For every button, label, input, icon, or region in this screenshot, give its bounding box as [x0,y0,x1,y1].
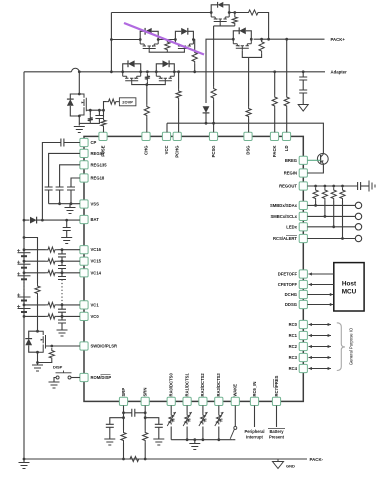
pin RC4 (right edge) [299,364,307,372]
wire VC15 resistor to pin [58,260,80,262]
svg-text:WAKE: WAKE [233,384,238,397]
junction C2 on gate wire [98,109,101,112]
wire VSS ground stub [69,204,71,208]
wire REGOUT line [307,185,357,187]
wire Q4 diode right lead [188,31,194,39]
pin PCSG (top edge) [209,132,217,140]
fuse symbol (hump) in Adapter rail [71,68,79,72]
wire SRN branch to C15 [145,418,159,425]
junction pull-up R11 top on REGOUT [324,185,327,188]
transistor Q9 (PLSR switch) [38,331,48,352]
wire R15 to 2OVP box [118,101,119,103]
pin RCS/ALERT (right edge) [299,234,307,242]
wire Q9 diode top lead [29,331,38,338]
dotted continuation of filter column [61,280,63,304]
wire R2 bottom to DSG gate wire [249,54,262,58]
wire VCC pin riser [166,123,168,132]
body diode of Q1 [218,2,224,8]
pin LD (top edge) [282,132,290,140]
signal arrow RC0 (bidirectional GPIO) [309,323,332,326]
capacitor C1 REGOUT decoupling [358,182,361,190]
wire R21 to PACK- rail [144,443,146,459]
svg-text:MCU: MCU [342,289,357,296]
wire DISP button to ground [54,378,56,382]
svg-text:REGIO: REGIO [91,151,105,156]
signal arrow CFETOFF from MCU [309,283,334,286]
wire C12 to ground [61,323,63,330]
junction BAT takeoff on rail [23,219,26,222]
wire pull-up R11 to its net [324,201,326,216]
junction C10 top [61,271,64,274]
wire Q8 diode bottom lead [70,106,79,116]
wire DISP button to ROM/DISP pin [71,377,80,379]
pin PACK (top edge) [270,132,278,140]
wire Q8 diode top lead [70,94,79,99]
junction VC14 tap on rail [23,271,26,274]
Host MCU box [334,263,364,311]
junction Q1 terminal on top rail [210,11,213,14]
wire Q5-Q6 rail link [120,71,176,73]
wire top rail FET Q1 to resistor [229,12,246,14]
wire D2 to BAT pin [37,219,80,221]
wire VC16 resistor to pin [58,249,80,251]
wire C8 top stub [61,250,63,254]
junction Q9 drain node [36,330,39,333]
signal arrow RC4 (bidirectional GPIO) [309,367,332,370]
junction C11 top [61,304,64,307]
junction C9 top [61,260,64,263]
junction pull-up R12 on net [332,225,335,228]
wire Q3-Q4 common source link [158,39,175,41]
ground at C7 [61,238,72,244]
wire C9 bottom stub [61,269,63,273]
pin RC1 (right edge) [299,331,307,339]
wire R6 bottom to bus [146,82,148,85]
capacitor C10 cell filter [58,277,66,280]
pin VC0 (left edge) [80,312,88,320]
junction C13 right [144,411,147,414]
svg-text:Host: Host [342,281,357,288]
wire PACK- bottom rail [24,458,307,460]
wire VC14 resistor to pin [58,272,80,274]
junction SRN on PACK- rail [144,458,147,461]
junction Q2 terminal on PACK+ line [232,38,235,41]
pin DCHG (right edge) [299,290,307,298]
svg-text:RC3: RC3 [289,355,298,360]
svg-text:RC6_IN: RC6_IN [252,382,257,397]
wire R18 to Q9 drain [37,296,39,331]
wire C13 left stub [124,412,132,414]
junction R16 on gate wire [89,109,92,112]
junction Q1 terminal on top rail [228,11,231,14]
wire SMBC/SCL line to terminal [307,215,355,217]
wire pull-up R13 to its net [342,201,344,239]
junction pull-up R10 on net [314,204,317,207]
resistor R17 in FUSE sense line [101,118,106,129]
transistor Q7 (BREG pass transistor) [317,154,328,165]
junction SRP on PACK- rail [122,458,125,461]
wire Q3/Q4 gate bus [149,51,184,52]
pin LEDx (right edge) [299,223,307,231]
capacitor C5 REG135 [56,187,64,190]
junction Q5/Q6 terminal on Adapter rail [139,70,142,73]
svg-text:RC4: RC4 [289,366,298,371]
svg-text:SRP: SRP [121,388,126,397]
junction C8 bottom [61,260,64,263]
pin VC16 (left edge) [80,246,88,254]
capacitor C11 cell filter [58,309,66,312]
ground at C12 [57,330,68,336]
signal arrow RC1 (bidirectional GPIO) [309,334,332,337]
wire DSG gate line to DSG pin [248,119,250,132]
svg-text:RA2/DCTS2: RA2/DCTS2 [200,373,205,397]
junction pull-up R13 on net [341,237,344,240]
battery cell 1 [17,305,31,312]
resistor R18 PLSR feed [35,284,40,297]
wire VSS rail [49,203,80,205]
wire Q2 gate to DSG net [242,51,248,58]
wire C16 to C17 [302,80,304,90]
svg-text:CFETOFF: CFETOFF [278,282,298,287]
resistor VC0 input filter [46,314,58,319]
wire Q5 diode left lead [123,64,129,72]
resistor R13 pull-up [340,188,345,202]
transistor Q2 (protection FET at PACK+) [233,39,251,51]
pin RA3/DCTS3 (bottom edge) [215,397,223,405]
wire VC1 resistor to pin [58,304,80,306]
ground at thermistor common [189,444,200,450]
junction thermistor on common rail [186,438,189,441]
wire C10 top stub [61,273,63,277]
terminal circle for SMBD/SDA [355,202,361,208]
svg-text:General Purpose IO: General Purpose IO [349,327,354,365]
wire R16 top stub [89,110,91,115]
resistor R11 pull-up [322,188,327,202]
body diode of Q6 [163,60,170,67]
resistor R4 between Q3/Q4 gates [165,40,170,53]
diode D2 into BAT pin [30,217,37,224]
svg-text:SMBCx/SCLx: SMBCx/SCLx [270,214,297,219]
transistor Q1 (series FET on top rail) [211,13,229,25]
junction PCHG riser on Adapter rail [177,70,180,73]
svg-text:RCS/ALERT: RCS/ALERT [273,236,297,241]
junction pull-up R11 on net [324,215,327,218]
junction C12 on VC0 wire [61,315,64,318]
wire R20 to PACK- rail [123,443,125,459]
wire RCS/ALERT line to terminal [307,238,355,240]
strike-out line over alternate FET pair [124,23,204,55]
svg-text:TS: TS [219,418,223,423]
svg-text:RC2: RC2 [289,344,298,349]
wire C17 to arrow [302,93,304,105]
resistor R6 between Q5/Q6 from rail to gate bus [145,74,150,82]
wire C6 to VSS rail [70,190,72,204]
pin VC15 (left edge) [80,257,88,265]
wire Q4 diode leads [175,31,181,39]
wire PACK+ line [254,38,325,40]
wire SRP branch to C14 [110,418,124,425]
wire C11 bottom stub [61,312,63,316]
wire C15 to ground [158,427,160,438]
svg-text:RC7/PRES: RC7/PRES [274,375,279,396]
thermistor TS4 [215,412,224,426]
wire Q1 gate bus [214,25,235,27]
wire Q9 source down to ground [37,352,39,364]
signal arrow RC2 (bidirectional GPIO) [309,345,332,348]
junction SRP branch [122,416,125,419]
svg-text:VC15: VC15 [91,259,102,264]
transistor Q8 (fuse-blow FET) [79,94,87,115]
battery cell 14 [17,272,31,279]
wire vertical from top rail to Adapter rail [110,13,112,72]
svg-text:SWDIO/PLSR: SWDIO/PLSR [91,344,118,349]
junction cap stack on Adapter rail [302,70,305,73]
wire fuse node down to Q8 drain [78,72,80,94]
svg-text:RC1: RC1 [289,333,298,338]
svg-text:DSG: DSG [245,145,250,154]
signal arrow RC3 (bidirectional GPIO) [309,356,332,359]
wire RC7/PRES drop [276,406,278,428]
svg-text:CP: CP [91,140,97,145]
junction thermistor on common rail [217,438,220,441]
signal arrow DDSG to MCU [307,303,333,306]
resistor R8 in PCHG line [176,89,181,101]
capacitor C8 cell filter [58,254,66,257]
wire TS4 pin drop [218,406,220,414]
capacitor C16 adapter filter [299,77,307,80]
svg-text:DFETOFF: DFETOFF [278,272,298,277]
dotted continuation of cell stack [23,282,25,293]
wire C2 top stub [98,110,100,115]
wire mid-stack tap to R18 [24,238,38,284]
junction crossed pair left node [110,38,113,41]
body diode of Q4 [181,28,188,35]
body diode of Q2 [239,27,246,34]
svg-text:RA1/DCTS1: RA1/DCTS1 [184,373,189,397]
body diode of Q8 [67,99,74,106]
svg-text:SRN: SRN [143,388,148,397]
pin VCC (top edge) [162,132,170,140]
capacitor C14 SRP to gnd [106,424,114,427]
svg-text:LD: LD [284,146,289,152]
svg-text:TS: TS [188,418,192,423]
wire Q9 diode bottom lead [29,345,38,352]
junction C9 bottom [61,271,64,274]
thermistor TS3 [199,412,208,426]
ground at Q8 source [74,127,85,133]
signal arrow DFETOFF from MCU [309,272,334,275]
resistor R24 in LD line [284,95,289,109]
overline on ALERT part of RCS/ALERT label [286,234,297,236]
svg-text:RA3/DCTS3: RA3/DCTS3 [216,373,221,397]
wire BREG pin to Q7 base (green) [307,159,320,161]
svg-text:Present: Present [269,435,285,440]
wire TS2 pin drop [186,406,188,414]
wire filter column to VC1 [61,303,63,305]
pin RC3 (right edge) [299,353,307,361]
wire Adapter cap stack drop [302,72,304,77]
wire RC6_IN drop [254,406,256,428]
wire VC15 tap to resistor [24,260,46,262]
pin SMBDx/SDAx (right edge) [299,201,307,209]
battery cell 16 [17,249,31,256]
svg-text:REG135: REG135 [91,162,108,167]
resistor R7 in CHG line [144,104,149,118]
battery cell 15 [17,261,31,268]
svg-text:VC1: VC1 [91,302,100,307]
wire TS3 pin drop [202,406,204,414]
resistor R2 Q2 gate pull-up [259,39,264,53]
junction Q9 source node [36,351,39,354]
pin VC1 (left edge) [80,301,88,309]
junction PCSG net on VCC feed line [212,122,215,125]
wire C13 right stub [135,412,145,414]
pin RA0/DCTS0 (bottom edge) [167,397,175,405]
resistor R12 pull-up [331,188,336,202]
overline on Battery Present [268,428,285,430]
capacitor C4 REGIO [45,187,53,190]
pin REGIN (right edge) [299,169,307,177]
svg-text:Interrupt: Interrupt [246,435,263,440]
junction PACK+ / Q2 gate resistor [260,38,263,41]
capacitor C6 REG18 [67,187,75,190]
resistor R22 current shunt [128,456,142,461]
thermistor TS2 [183,412,192,426]
wire C12 top stub [61,316,63,320]
resistor VC15 input filter [46,259,58,264]
junction C5 on VSS rail [58,202,61,205]
wire top rail corner down to PACK+ line [261,13,269,40]
wire TS1 to common [170,427,172,440]
wire Adapter rail right segment [176,71,325,73]
junction thermistor gnd stub [193,438,196,441]
junction VC1 tap on rail [23,304,26,307]
wire Adapter rail left segment [24,71,71,73]
svg-text:Adapter: Adapter [331,69,348,74]
resistor R9 in PCSG net [211,86,216,101]
wire Q3 diode leads [140,31,145,39]
wire VC16 tap to resistor [24,249,46,251]
resistor R3 in DSG gate line [246,106,251,119]
wire Q9 gate to SWDIO pin [47,345,80,347]
pin REG18 (left edge) [80,174,88,182]
junction crossed pair terminal [157,38,160,41]
wire battery rail to D2 [24,219,30,221]
wire R19 bottom to source [38,361,52,363]
svg-text:GND: GND [286,464,295,469]
junction FUSE riser on gate wire [102,109,105,112]
ground at C15 [153,439,164,445]
junction Q5/Q6 terminal on Adapter rail [121,70,124,73]
resistor VC1 input filter [46,302,58,307]
body diode of Q5 [128,60,135,67]
junction C8 top [61,248,64,251]
resistor R19 gate pull-down [49,348,54,361]
junction C11 bottom [61,315,64,318]
junction C7 on BAT wire [65,219,68,222]
svg-text:TS: TS [203,418,207,423]
transistor Q4 (alternate FET, crossed out) [175,40,193,52]
wire REG18 pin to C6 [71,178,80,187]
wire Q1 diode right lead [223,5,229,13]
wire TS3 to common [202,427,204,440]
junction VC15 tap on rail [23,260,26,263]
wire C3 to BAT net [42,143,61,221]
wire Q2 diode right lead [246,31,252,39]
wire C2 bottom to bus [90,119,99,124]
svg-text:CHG: CHG [143,146,148,155]
junction VC16 tap on rail [23,248,26,251]
ground at VSS [65,208,76,214]
pin BAT (left edge) [80,215,88,223]
junction PACK riser on Adapter rail [273,70,276,73]
resistor R1 in series on top rail [246,10,261,15]
junction Q5/Q6 terminal on Adapter rail [155,70,158,73]
wire R23 to PACK pin [274,109,276,133]
wire R17 to FUSE pin [103,129,105,133]
junction PACK+ / top-rail corner [267,38,270,41]
pin FUSE (top edge) [99,132,107,140]
junction C6 on VSS rail [70,202,73,205]
junction top-rail vertical on Adapter rail [110,70,113,73]
wire LED line to terminal [307,226,355,228]
wire R24 to LD pin [286,109,288,133]
wire rail to bottom-left ground [23,459,25,463]
junction R5 on Adapter rail [193,70,196,73]
wire SRP pin to shunt [123,406,125,431]
battery cell 2 [17,293,31,300]
pin DFETOFF (right edge) [299,270,307,278]
ground at DISP button [49,382,60,388]
pin CP (left edge) [80,138,88,146]
wire Q6 diode right lead [169,64,174,72]
resistor VC14 input filter [46,270,58,275]
junction C3 return on BAT wire [41,219,44,222]
wire gate bus to CHG vertical [146,85,148,104]
pushbutton WAKE switch [230,426,237,438]
wire VC14 tap to resistor [24,272,46,274]
transistor Q5 (charge FET on Adapter rail) [123,72,141,84]
wire DSG gate line down to pin [248,57,250,106]
wire REG135 pin to C5 [60,165,80,187]
junction pull-up R13 top on REGOUT [341,185,344,188]
wire CP pin to capacitor [64,142,80,144]
wire C14 to ground [109,427,111,438]
pin RA1/DCTS1 (bottom edge) [183,397,191,405]
terminal circle for RCS/ALERT [355,235,361,241]
svg-text:Battery: Battery [269,429,284,434]
resistor R25 Q1 gate to source [232,15,237,26]
resistor R5 crossed pair to Adapter rail [192,50,197,64]
ground at bottom-left of PACK- rail [19,463,30,469]
wire top rail from corner to FET Q1 [111,12,211,14]
junction Q8 source node [78,115,81,118]
wire D1 lower lead [205,113,207,123]
svg-text:REGOUT: REGOUT [279,184,297,189]
body diode of Q9 [25,339,32,346]
transistor Q3 (alternate FET, crossed out) [140,40,158,52]
svg-text:TS: TS [172,418,176,423]
body diode of Q3 [145,28,152,35]
svg-text:RA0/DCTS0: RA0/DCTS0 [169,373,174,397]
svg-text:Peripheral: Peripheral [244,429,264,434]
pin REGOUT (right edge) [299,182,307,190]
svg-text:2OVP: 2OVP [122,100,133,105]
junction fuse/FET drain node [78,70,81,73]
svg-text:REG18: REG18 [91,176,105,181]
junction R19 top on gate wire [50,345,53,348]
wire R5 to Adapter rail [194,64,196,72]
